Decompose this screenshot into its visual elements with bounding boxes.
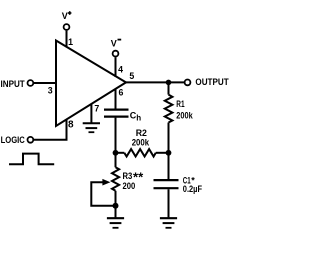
svg-text:LOGIC: LOGIC [1, 135, 26, 145]
svg-text:3: 3 [48, 85, 53, 95]
svg-text:V: V [111, 39, 117, 49]
svg-text:INPUT: INPUT [1, 79, 26, 89]
svg-text:4: 4 [118, 64, 123, 74]
svg-text:R1: R1 [176, 99, 184, 109]
svg-text:5: 5 [129, 71, 134, 81]
svg-text:R2: R2 [136, 128, 147, 138]
svg-text:200k: 200k [132, 137, 150, 147]
svg-text:V: V [62, 11, 68, 21]
svg-text:6: 6 [119, 88, 124, 98]
svg-text:R3: R3 [123, 171, 133, 181]
svg-text:OUTPUT: OUTPUT [195, 77, 228, 88]
svg-text:**: ** [133, 169, 144, 184]
svg-text:1: 1 [68, 37, 73, 47]
svg-text:h: h [136, 114, 141, 123]
svg-text:7: 7 [94, 104, 99, 114]
svg-text:200k: 200k [176, 110, 193, 120]
svg-text:8: 8 [68, 120, 74, 131]
svg-text:*: * [191, 176, 195, 186]
